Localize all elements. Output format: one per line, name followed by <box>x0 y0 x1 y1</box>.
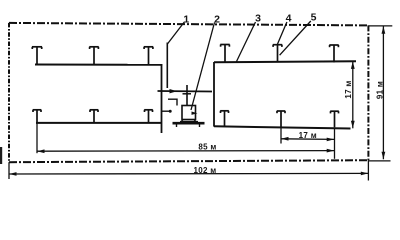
right boom left drop pipe <box>213 62 215 127</box>
nozzle T right-top 2 <box>273 45 282 63</box>
dimension 91m top arrow <box>382 26 386 34</box>
right boom top pipe with extension <box>214 61 356 62</box>
callout 5 leader <box>280 21 311 55</box>
dimension 17m horizontal line <box>281 138 334 141</box>
svg-text:2: 2 <box>214 14 220 26</box>
dimension 91m line <box>382 26 384 159</box>
skid foot left <box>176 124 178 127</box>
dimension 17m horizontal left arrow <box>281 137 289 141</box>
dimension 17m vertical line <box>352 61 354 128</box>
callout 3 leader <box>237 22 256 62</box>
hose bar <box>162 110 171 112</box>
extension stem below left boom outer nozzle <box>36 123 38 153</box>
scan edge smudge <box>0 147 2 164</box>
skid foot right <box>199 124 201 127</box>
tail nozzle arrow <box>192 112 198 115</box>
nozzle T left-bottom 1 <box>33 110 42 123</box>
helicopter rotor line <box>158 90 213 93</box>
dimension 102m right extension <box>367 160 369 180</box>
dimension 102m line <box>9 172 368 175</box>
svg-text:3: 3 <box>255 13 261 25</box>
extension stem below right boom middle nozzle <box>280 127 282 143</box>
dimension 102m left arrow <box>9 172 17 176</box>
extension stem below right boom outer nozzle <box>334 128 336 159</box>
skid strut left <box>180 120 183 124</box>
hose junction dot <box>169 110 172 113</box>
dimension 85m right arrow <box>327 149 335 153</box>
callout 2 leader <box>191 23 215 111</box>
svg-text:17 м: 17 м <box>299 131 317 140</box>
rotor hub mast <box>186 85 188 106</box>
nozzle T left-top 2 <box>89 47 98 65</box>
field boundary dash-dot border <box>9 23 368 162</box>
left boom top pipe <box>35 64 162 66</box>
rotor flow arrow <box>170 89 178 93</box>
skid strut right <box>194 120 197 124</box>
skid bar <box>173 122 205 125</box>
left boom right drop pipe <box>161 64 163 133</box>
dimension 91m bottom arrow <box>382 152 386 160</box>
rotor hub bar <box>183 93 192 95</box>
dimension 17m vertical bottom arrow <box>351 121 355 129</box>
nozzle T right-top 1 <box>220 45 229 63</box>
nozzle T left-bottom 2 <box>90 110 99 123</box>
helicopter mast <box>166 43 168 89</box>
nozzle T left-bottom 3 <box>144 110 153 123</box>
svg-text:17 м: 17 м <box>344 80 353 98</box>
left boom bottom pipe <box>36 122 162 124</box>
nozzle T right-top 3 <box>329 45 338 63</box>
svg-text:102 м: 102 м <box>194 166 217 175</box>
skid shadow <box>180 121 198 123</box>
callout 1 leader <box>167 22 184 44</box>
nozzle T right-bottom 3 <box>330 111 339 127</box>
nozzle T right-bottom 1 <box>220 111 229 127</box>
dimension 91m top extension <box>368 25 392 27</box>
callout 4 leader <box>277 22 287 45</box>
helicopter body <box>182 106 196 120</box>
dimension 102m right arrow <box>361 172 369 176</box>
svg-text:1: 1 <box>183 14 189 26</box>
nozzle T left-top 1 <box>32 47 42 65</box>
pump step <box>168 99 177 105</box>
dimension 102m left extension <box>8 162 10 179</box>
nozzle T right-bottom 2 <box>277 111 286 127</box>
svg-text:91 м: 91 м <box>375 81 384 99</box>
dimension 85m left arrow <box>37 149 45 153</box>
dimension 91m bottom extension <box>368 160 390 162</box>
svg-text:85 м: 85 м <box>198 143 216 152</box>
dimension 85m line <box>37 150 334 153</box>
dimension 17m vertical top arrow <box>351 61 355 69</box>
svg-text:5: 5 <box>311 12 317 24</box>
right boom bottom pipe with extension <box>214 126 351 128</box>
nozzle T left-top 3 <box>144 47 153 65</box>
dimension 17m horizontal right arrow <box>327 138 335 142</box>
